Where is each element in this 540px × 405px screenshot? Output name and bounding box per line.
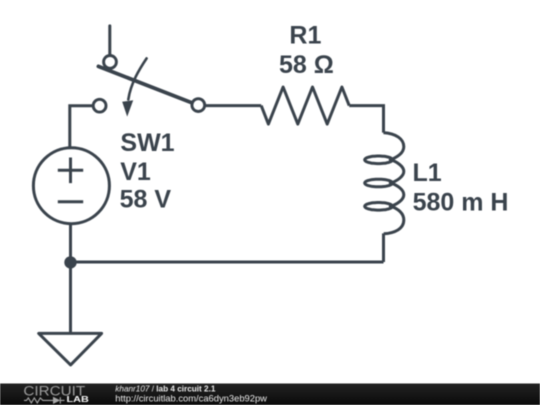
svg-text:58 Ω: 58 Ω (279, 51, 334, 79)
wire: switch top stub (108, 26, 111, 55)
svg-text:http://circuitlab.com/ca6dyn3e: http://circuitlab.com/ca6dyn3eb92pw (115, 393, 267, 404)
voltage source V1 circle (33, 148, 109, 224)
svg-text:V1: V1 (120, 158, 151, 186)
switch SW1 blade (98, 66, 190, 102)
CircuitLab logo: diode triangle (53, 397, 60, 404)
switch SW1 left terminal (93, 99, 106, 112)
wire: switch to resistor (206, 104, 262, 107)
node: junction dot (64, 256, 76, 268)
voltage source V1 plus sign (58, 158, 83, 184)
svg-text:580 m H: 580 m H (413, 189, 509, 217)
wire: switch left terminal to source top (70, 106, 93, 148)
switch SW1 right terminal (192, 99, 205, 112)
voltage source V1 minus sign (58, 200, 83, 203)
svg-text:SW1: SW1 (120, 129, 174, 157)
wire: bottom return (71, 261, 384, 264)
switch SW1 actuation arrowhead (122, 100, 133, 116)
svg-text:R1: R1 (289, 21, 321, 49)
wire: source bottom to junction (69, 224, 72, 262)
wire: resistor to inductor (349, 106, 383, 133)
wire: junction to ground (69, 262, 72, 333)
CircuitLab logo: schematic squiggle resistor (24, 397, 65, 403)
inductor L1 coil (365, 133, 404, 234)
ground (39, 333, 102, 365)
switch SW1 pivot terminal (104, 56, 117, 69)
wire: inductor bottom stub (382, 233, 385, 262)
CircuitLab logo: diode cathode bar and lead (60, 397, 64, 403)
svg-text:58 V: 58 V (120, 186, 172, 214)
resistor R1 (261, 87, 349, 124)
svg-text:LAB: LAB (67, 394, 89, 404)
switch SW1 actuation arrow arc (128, 58, 146, 99)
svg-text:L1: L1 (413, 159, 442, 187)
